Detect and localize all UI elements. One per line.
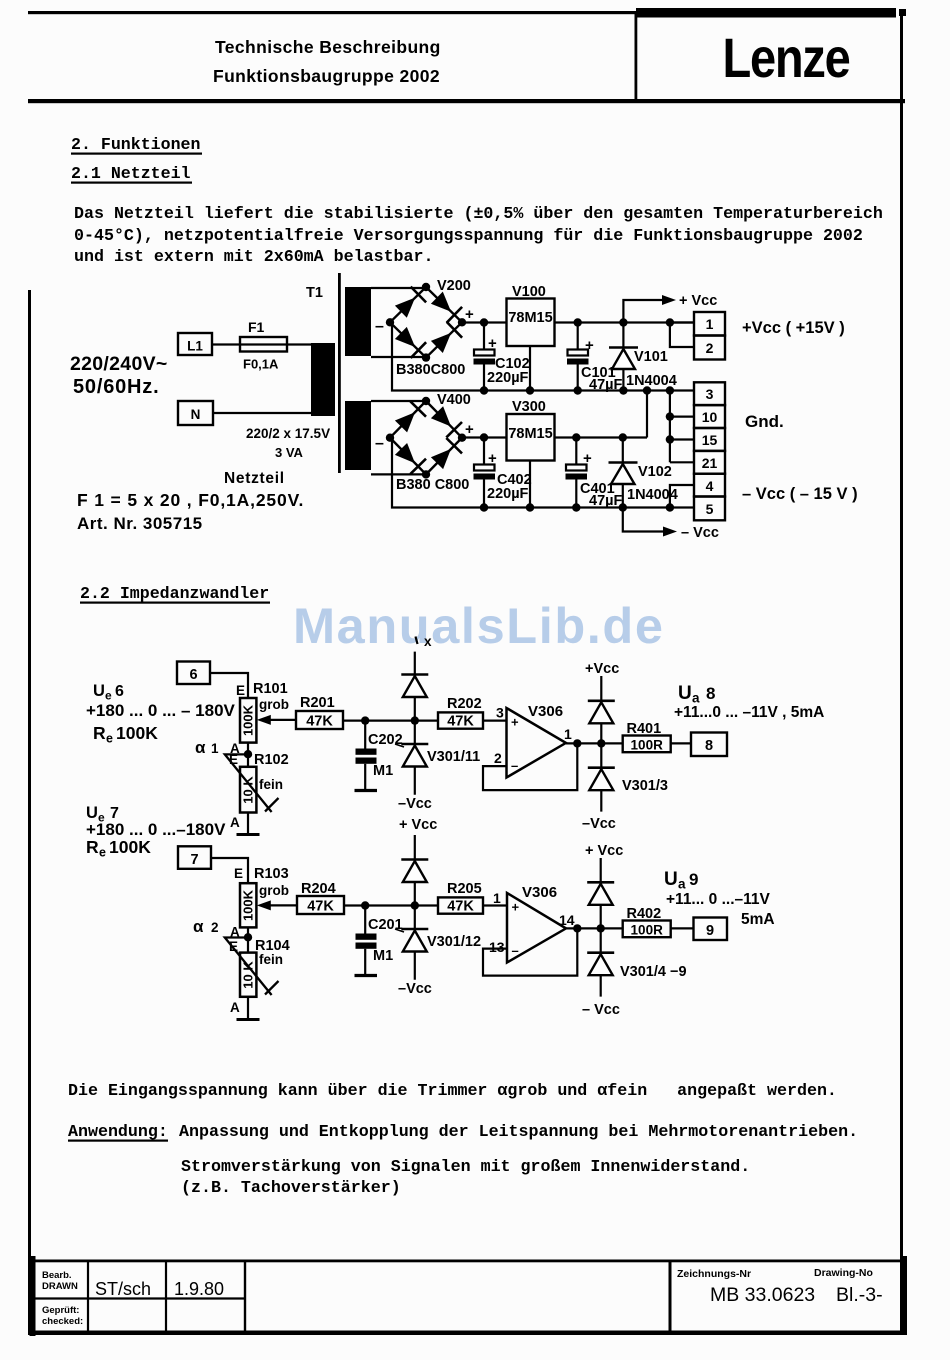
svg-text:Lenze: Lenze — [723, 26, 850, 89]
label 1N4004 V102 — [627, 487, 678, 503]
capacitor C202 — [356, 716, 377, 789]
svg-text:ManualsLib.de: ManualsLib.de — [293, 597, 665, 654]
svg-text:1: 1 — [706, 316, 714, 332]
svg-text:220/2 x 17.5V: 220/2 x 17.5V — [246, 426, 330, 441]
svg-text:3: 3 — [706, 386, 714, 402]
label A R101 — [230, 741, 240, 756]
svg-text:+ Vcc: + Vcc — [679, 293, 717, 309]
svg-text:R201: R201 — [300, 695, 335, 711]
svg-text:10: 10 — [702, 409, 718, 425]
label Geprueft checked — [42, 1305, 83, 1327]
label V301/12 — [427, 934, 481, 950]
svg-text:U: U — [678, 683, 692, 704]
label -Vcc V301/12 — [398, 981, 432, 997]
wire terminal 6 to R101 — [210, 673, 248, 698]
label pin 2 — [494, 750, 502, 766]
label F1 — [248, 319, 265, 335]
svg-text:+11...0 ... –11V , 5mA: +11...0 ... –11V , 5mA — [674, 704, 824, 721]
transformer T1 secondary winding 1 — [345, 287, 371, 356]
op-amp U2 V306 — [507, 893, 566, 963]
svg-text:–: – — [511, 758, 518, 773]
ground rail dots — [643, 386, 674, 394]
label V200 — [437, 278, 471, 294]
label +Vcc top — [679, 293, 717, 309]
terminal 8 — [691, 733, 727, 757]
svg-text:+: + — [488, 450, 497, 467]
svg-text:Bl.-3-: Bl.-3- — [836, 1284, 883, 1306]
label 3VA — [275, 445, 304, 460]
label alpha 2 — [193, 917, 219, 936]
label 1.9.80 — [174, 1279, 224, 1299]
resistor R202 — [438, 712, 483, 729]
svg-text:47K: 47K — [306, 714, 333, 730]
svg-text:Die Eingangsspannung kann über: Die Eingangsspannung kann über die Trimm… — [68, 1081, 837, 1100]
svg-text:grob: grob — [259, 883, 289, 898]
wire R202 to op-amp — [483, 719, 507, 721]
ground channel 1 input — [237, 833, 260, 836]
wire R201 to R202 main node — [343, 719, 438, 721]
svg-text:+Vcc ( +15V ): +Vcc ( +15V ) — [742, 319, 845, 337]
-Vcc rail — [484, 506, 694, 508]
terminal 2 — [694, 336, 725, 360]
label MB 33.0623 — [710, 1284, 815, 1306]
wire L1 to fuse — [212, 343, 240, 345]
transformer T1 primary winding — [311, 343, 335, 416]
svg-text:Anpassung und Entkopplung der: Anpassung und Entkopplung der Leitspannu… — [179, 1122, 858, 1141]
V200 diode TR — [431, 292, 462, 323]
label 220uF C402 — [487, 486, 529, 502]
label V102 — [638, 464, 672, 480]
label alpha 1 — [195, 738, 219, 757]
svg-text:M1: M1 — [373, 948, 393, 964]
ground rail — [484, 389, 694, 391]
label pin 13 — [489, 939, 505, 955]
V400 diode TR — [431, 406, 462, 437]
svg-text:6: 6 — [189, 667, 197, 683]
label fein R102 — [259, 777, 283, 792]
svg-text:7: 7 — [190, 852, 198, 868]
svg-text:F 1 = 5 x 20 , F0,1A,250V.: F 1 = 5 x 20 , F0,1A,250V. — [77, 490, 304, 510]
svg-text:1: 1 — [493, 890, 501, 906]
svg-text:Das Netzteil liefert die stabi: Das Netzteil liefert die stabilisierte (… — [74, 204, 883, 223]
ground channel 2 input — [237, 1018, 260, 1021]
label R101 — [253, 681, 288, 697]
svg-text:V301/4 −9: V301/4 −9 — [620, 964, 687, 980]
wiper arrow R101 — [257, 715, 296, 725]
page right border — [900, 10, 903, 1332]
label Drawing-No — [814, 1267, 873, 1279]
paragraph Netzteil description line 3 — [74, 247, 434, 266]
svg-text:M1: M1 — [373, 763, 393, 779]
label C201 — [368, 917, 404, 933]
svg-text:V300: V300 — [512, 399, 546, 415]
svg-text:R: R — [86, 837, 99, 857]
svg-text:– Vcc ( – 15 V ): – Vcc ( – 15 V ) — [742, 485, 858, 503]
diode V301/12 — [401, 906, 428, 980]
label plus bridge1 — [465, 306, 474, 323]
label V101 — [634, 349, 668, 365]
label +Vcc (+15V) — [742, 319, 845, 337]
wire to terminal 10 — [670, 416, 694, 418]
capacitor C401 — [566, 433, 588, 511]
svg-text:+: + — [585, 337, 594, 354]
svg-text:220µF: 220µF — [487, 486, 529, 502]
V400 node ac top — [422, 397, 430, 405]
wire bridge1 minus to ground rail — [390, 322, 484, 390]
label pin 14 — [559, 912, 575, 928]
svg-text:100K: 100K — [109, 837, 151, 857]
heading Anwendung — [68, 1122, 168, 1142]
bridge rectifier V400 diamond wires — [390, 401, 462, 474]
svg-text:A: A — [230, 815, 240, 830]
svg-text:L1: L1 — [187, 339, 203, 354]
wire R101 to R102 junction — [244, 743, 252, 767]
wire V100 ground pin — [526, 346, 534, 395]
diode to +Vcc channel 2 input — [401, 835, 428, 910]
wire R104 to ground — [247, 997, 249, 1019]
label Ua 8 — [678, 683, 715, 706]
svg-text:checked:: checked: — [42, 1316, 83, 1327]
svg-text:E: E — [234, 866, 243, 881]
label fein R104 — [259, 952, 283, 967]
label Netzteil — [224, 470, 285, 487]
wire bridge2 minus to -Vcc rail — [392, 438, 484, 508]
Lenze box top bar — [636, 8, 906, 18]
label C202 — [368, 732, 404, 748]
wire R401 to terminal 8 — [671, 742, 691, 744]
svg-text:–: – — [375, 318, 384, 335]
V400 node plus — [458, 434, 466, 442]
label C402 plus — [488, 450, 497, 467]
watermark ManualsLib.de — [293, 597, 665, 654]
svg-text:9: 9 — [706, 923, 714, 939]
label C101 plus — [585, 337, 594, 354]
op-amp 1 output wire — [566, 739, 623, 747]
title block middle horizontal — [35, 1297, 245, 1299]
label ST/sch — [95, 1279, 151, 1299]
svg-text:47K: 47K — [447, 899, 474, 915]
diode V101 — [609, 318, 638, 394]
svg-text:V301/11: V301/11 — [427, 749, 480, 765]
label -Vcc clamp channel 1 — [582, 816, 616, 832]
svg-text:6: 6 — [115, 683, 124, 700]
svg-text:100K: 100K — [116, 723, 158, 743]
label Ue 6 — [93, 682, 124, 703]
op-amp 2 feedback wire — [483, 928, 577, 975]
V200 node plus — [458, 318, 466, 326]
svg-text:21: 21 — [702, 455, 718, 471]
label M1 C202 — [373, 763, 393, 779]
svg-text:+: + — [465, 306, 474, 323]
svg-text:B380 C800: B380 C800 — [396, 477, 469, 493]
svg-text:100R: 100R — [631, 738, 664, 753]
wire V300 output to ground rail — [646, 391, 648, 438]
V200 node minus — [386, 318, 394, 326]
svg-text:R202: R202 — [447, 696, 482, 712]
trimmer R102 — [240, 767, 256, 813]
svg-text:0-45°C), netzpotentialfreie Ve: 0-45°C), netzpotentialfreie Versorgungss… — [74, 226, 863, 245]
diode V301/11 — [401, 721, 428, 795]
terminal 6 — [177, 662, 210, 685]
svg-text:A: A — [230, 1000, 240, 1015]
svg-text:R205: R205 — [447, 881, 482, 897]
label 5mA channel 2 — [741, 911, 775, 928]
regulator V100 — [507, 299, 555, 347]
label minus bridge2 — [375, 435, 384, 452]
V400 node ac bottom — [422, 470, 430, 478]
label C402 — [497, 472, 532, 488]
label C102 plus — [488, 335, 497, 352]
paragraph Netzteil description line 2 — [74, 226, 863, 245]
label +Vcc clamp channel 1 — [585, 661, 619, 677]
diode to +Vcc channel 1 input — [401, 652, 428, 725]
svg-text:MB 33.0623: MB 33.0623 — [710, 1284, 815, 1306]
label pin 3 — [496, 705, 504, 721]
svg-text:2: 2 — [494, 750, 502, 766]
clamp diode V301/4-9 — [587, 928, 614, 996]
svg-text:+: + — [488, 335, 497, 352]
svg-text:2.2 Impedanzwandler: 2.2 Impedanzwandler — [80, 584, 269, 603]
label V306 channel 2 — [522, 884, 557, 901]
diode V102 — [609, 433, 638, 511]
svg-text:13: 13 — [489, 939, 505, 955]
wire V300 output rail — [555, 436, 648, 438]
svg-text:DRAWN: DRAWN — [42, 1281, 78, 1292]
heading 2.2 Impedanzwandler — [80, 584, 270, 604]
svg-text:α: α — [195, 738, 206, 757]
ground C201 — [355, 974, 378, 977]
svg-text:4: 4 — [706, 478, 714, 494]
svg-text:+: + — [511, 715, 519, 730]
resistor R402 — [623, 921, 671, 938]
svg-text:1.9.80: 1.9.80 — [174, 1279, 224, 1299]
svg-text:F0,1A: F0,1A — [243, 357, 279, 372]
trimmer R102 adjust arrow — [225, 754, 279, 812]
V400 diode LB — [395, 443, 426, 474]
svg-text:fein: fein — [259, 952, 283, 967]
svg-text:+Vcc: +Vcc — [585, 661, 619, 677]
V400 diode LT — [395, 401, 426, 432]
header title line 2 — [213, 66, 440, 86]
header title line 1 — [215, 37, 441, 57]
svg-text:2: 2 — [706, 340, 714, 356]
label R205 — [447, 881, 482, 897]
svg-text:100R: 100R — [631, 923, 664, 938]
terminal 9 — [694, 918, 728, 941]
svg-text:220/240V~: 220/240V~ — [70, 353, 168, 375]
label Re 100K — [93, 723, 158, 746]
label 47uF C401 — [589, 493, 622, 509]
svg-text:Stromverstärkung von Signalen: Stromverstärkung von Signalen mit großem… — [181, 1157, 750, 1176]
clamp diode to +Vcc channel 1 — [588, 676, 615, 743]
label input range 1 — [86, 701, 236, 720]
svg-text:V102: V102 — [638, 464, 672, 480]
svg-text:e: e — [99, 846, 106, 860]
wire to terminal 4 — [666, 485, 694, 512]
svg-text:α: α — [193, 917, 204, 936]
svg-text:Gnd.: Gnd. — [745, 412, 784, 431]
svg-text:V100: V100 — [512, 284, 546, 300]
svg-text:Drawing-No: Drawing-No — [814, 1267, 873, 1279]
V200 diode LT — [395, 287, 426, 318]
svg-text:2.1 Netzteil: 2.1 Netzteil — [71, 164, 191, 183]
label R102 — [254, 752, 289, 768]
label Re 100K channel 2 — [86, 837, 151, 860]
wire gnd terminal column — [666, 391, 674, 463]
resistor R401 — [623, 736, 671, 753]
terminal 5 — [694, 497, 725, 521]
label -Vcc (-15V) — [742, 485, 858, 503]
label R201 — [300, 695, 335, 711]
svg-text:–Vcc: –Vcc — [398, 796, 432, 812]
resistor R204 — [297, 896, 344, 915]
label E R102 — [229, 752, 238, 767]
svg-text:ST/sch: ST/sch — [95, 1279, 151, 1299]
label minus bridge1 — [375, 318, 384, 335]
label E R101 — [236, 683, 245, 698]
label output range 1 — [674, 704, 824, 721]
svg-text:–Vcc: –Vcc — [398, 981, 432, 997]
label R103 — [254, 866, 289, 882]
label R202 — [447, 696, 482, 712]
label Art.Nr. 305715 — [77, 514, 203, 533]
svg-text:B380C800: B380C800 — [396, 362, 465, 378]
svg-text:–: – — [375, 435, 384, 452]
svg-text:1: 1 — [564, 726, 572, 742]
label Gnd. — [745, 412, 784, 431]
label grob R101 — [259, 697, 289, 712]
wire secondary2 to bridge bottom — [371, 473, 426, 475]
capacitor C402 — [474, 433, 496, 511]
header top rule — [28, 11, 638, 14]
heading 2.1 Netzteil — [71, 164, 192, 184]
label C401 plus — [583, 450, 592, 467]
label input range 2 — [86, 820, 226, 839]
wire to terminal 15 — [670, 438, 694, 440]
svg-text:3: 3 — [496, 705, 504, 721]
svg-text:8: 8 — [706, 684, 715, 703]
wire R204 to R205 main node — [344, 904, 438, 906]
svg-text:x: x — [424, 634, 432, 649]
paragraph Anwendung line 3 — [181, 1178, 401, 1197]
svg-text:fein: fein — [259, 777, 283, 792]
label C101 — [581, 365, 616, 381]
terminal 3 — [694, 382, 725, 405]
label M1 C201 — [373, 948, 393, 964]
svg-text:(z.B. Tachoverstärker): (z.B. Tachoverstärker) — [181, 1178, 401, 1197]
svg-text:V306: V306 — [522, 884, 557, 901]
wire secondary2 to bridge top — [371, 400, 426, 402]
svg-text:Technische Beschreibung: Technische Beschreibung — [215, 37, 441, 57]
svg-text:50/60Hz.: 50/60Hz. — [73, 376, 159, 398]
label -Vcc clamp channel 2 — [582, 1002, 620, 1018]
svg-text:+: + — [465, 421, 474, 438]
title block bottom border — [30, 1331, 906, 1336]
title block top border — [35, 1260, 905, 1263]
V200 node ac bottom — [422, 353, 430, 361]
label A R103 — [230, 925, 240, 940]
wire R102 to ground — [247, 813, 249, 835]
label plus bridge2 — [465, 421, 474, 438]
svg-text:Art. Nr. 305715: Art. Nr. 305715 — [77, 514, 203, 533]
label A R104 — [230, 1000, 240, 1015]
terminal 1 — [694, 312, 725, 336]
svg-text:9: 9 — [689, 870, 698, 889]
label V301/4-9 — [620, 964, 687, 980]
op-amp 1 feedback wire — [483, 743, 577, 790]
svg-text:e: e — [106, 732, 113, 746]
svg-text:47K: 47K — [307, 899, 334, 915]
svg-text:–: – — [512, 943, 519, 958]
svg-text:– Vcc: – Vcc — [681, 525, 719, 541]
svg-text:Anwendung:: Anwendung: — [68, 1122, 168, 1141]
terminal 21 — [694, 451, 725, 474]
label 1N4004 V101 — [626, 373, 677, 389]
svg-text:R102: R102 — [254, 752, 289, 768]
paragraph Anwendung line 2 — [181, 1157, 750, 1176]
wire V100 output rail — [555, 321, 695, 323]
label F0,1A — [243, 357, 279, 372]
svg-text:V301/3: V301/3 — [622, 778, 668, 794]
paragraph Netzteil description line 1 — [74, 204, 883, 223]
svg-text:Netzteil: Netzteil — [224, 470, 285, 487]
resistor R205 — [438, 897, 483, 914]
heading 2. Funktionen — [71, 135, 202, 155]
title block right thick border — [900, 1256, 907, 1335]
terminal 15 — [694, 428, 725, 451]
label -Vcc V301/11 — [398, 796, 432, 812]
svg-text:3 VA: 3 VA — [275, 445, 304, 460]
svg-text:V306: V306 — [528, 703, 563, 720]
label V400 — [437, 392, 471, 408]
label Zeichnungs-Nr — [677, 1268, 751, 1280]
svg-text:2. Funktionen: 2. Funktionen — [71, 135, 200, 154]
label Ua 9 — [664, 869, 698, 892]
label R104 — [255, 938, 290, 954]
V200 node ac top — [422, 283, 430, 291]
ground C202 — [355, 789, 378, 792]
wire bridge2 plus to V300 — [462, 436, 507, 438]
svg-text:5: 5 — [706, 501, 714, 517]
label V301/11 — [427, 749, 480, 765]
svg-text:R103: R103 — [254, 866, 289, 882]
svg-text:T1: T1 — [306, 285, 323, 301]
svg-text:– Vcc: – Vcc — [582, 1002, 620, 1018]
clamp diode to +Vcc channel 2 — [587, 858, 614, 928]
Lenze logo — [723, 26, 850, 89]
svg-text:78M15: 78M15 — [508, 310, 552, 326]
label T1 — [306, 285, 323, 301]
wire secondary1 to bridge top — [371, 287, 426, 289]
svg-text:R402: R402 — [627, 906, 662, 922]
label V300 — [512, 399, 546, 415]
wire to terminal 1 — [666, 318, 694, 326]
regulator V300 — [507, 414, 555, 461]
page left edge line — [28, 290, 31, 1335]
label Ue 7 — [86, 804, 119, 825]
capacitor C102 — [474, 318, 496, 394]
svg-text:47K: 47K — [447, 714, 474, 730]
wiper arrow R103 — [257, 900, 297, 910]
transformer T1 secondary winding 2 — [345, 401, 371, 470]
wire V300 ground pin — [526, 461, 534, 512]
label V306 channel 1 — [528, 703, 563, 720]
wire to terminal 2 — [670, 323, 694, 348]
bridge rectifier V200 diamond wires — [390, 287, 462, 358]
svg-text:U: U — [93, 682, 105, 700]
svg-text:220µF: 220µF — [487, 370, 529, 386]
svg-text:E: E — [236, 683, 245, 698]
